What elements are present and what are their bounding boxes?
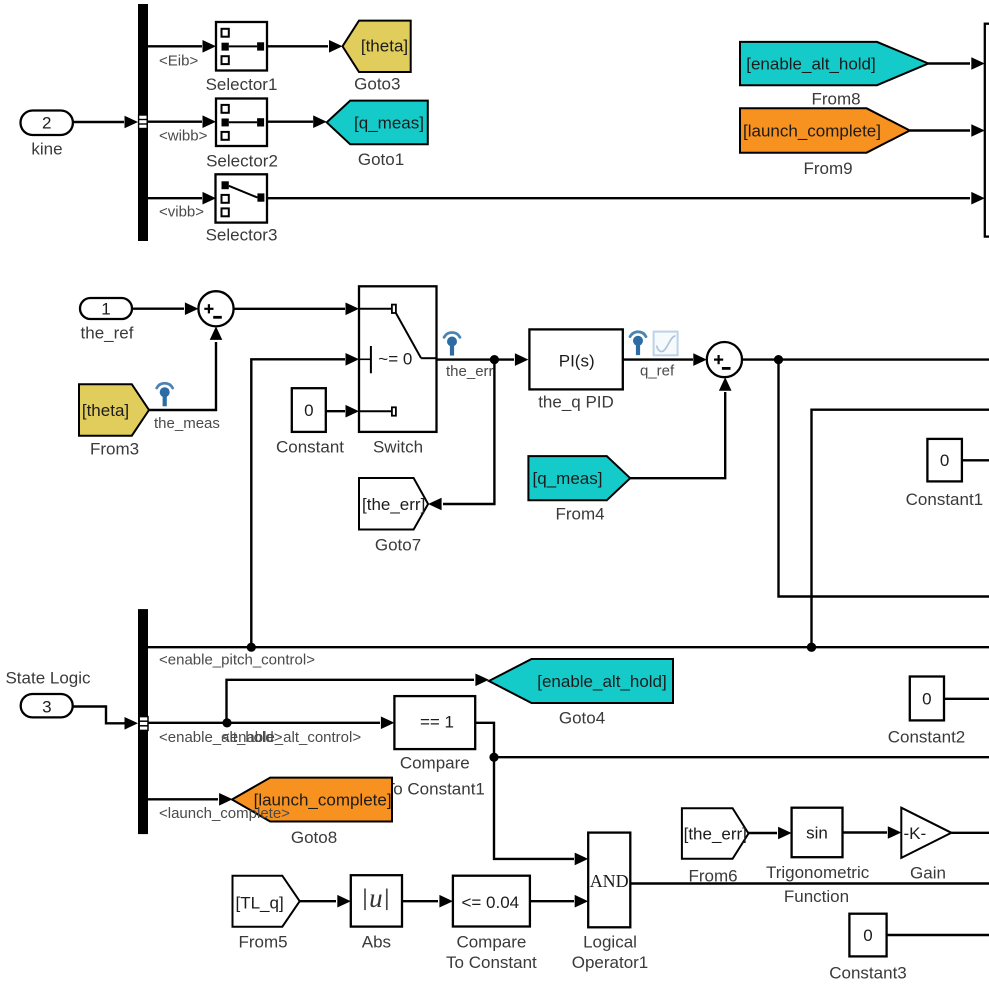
wire From3 to sum1 (149, 326, 222, 410)
svg-text:Gain: Gain (910, 863, 946, 882)
constant Constant (276, 388, 344, 456)
goto tag Goto7 [the_err] (359, 478, 428, 555)
svg-text:To Constant1: To Constant1 (385, 779, 485, 798)
wire PID to sum2 (623, 353, 707, 366)
svg-text:Goto1: Goto1 (358, 150, 404, 169)
wire Abs to compare (402, 895, 453, 908)
svg-text:<Eib>: <Eib> (159, 53, 198, 70)
svg-text:State Logic: State Logic (5, 669, 91, 688)
PID block the_q PID (529, 329, 622, 411)
svg-text:Constant2: Constant2 (888, 728, 966, 747)
svg-text:Abs: Abs (362, 933, 391, 952)
svg-text:To Constant: To Constant (446, 953, 537, 972)
trig block sin (766, 808, 870, 906)
wire From9 to right block (910, 124, 985, 137)
svg-text:<vibb>: <vibb> (159, 204, 204, 221)
svg-text:Compare: Compare (400, 754, 470, 773)
bus selector bar 1 (138, 4, 148, 241)
wire bus to Selector2 (148, 115, 216, 128)
sum block Sum2 (707, 342, 742, 377)
wire switch output to PID with junction (437, 353, 529, 366)
inport 1 the_ref (80, 298, 134, 343)
switch Switch (359, 286, 437, 456)
svg-text:Constant: Constant (276, 438, 344, 457)
svg-text:Constant1: Constant1 (906, 490, 984, 509)
svg-text:Goto8: Goto8 (291, 828, 337, 847)
signal logging badge q_ref (630, 332, 675, 380)
signal logging badge the_meas (154, 383, 220, 432)
svg-text:2: 2 (42, 114, 51, 133)
inport 3 (21, 694, 73, 717)
svg-text:[TL_q]: [TL_q] (236, 894, 284, 913)
wire feedback loop outer (779, 360, 989, 597)
logical operator AND (572, 833, 649, 972)
wire Constant2 out (944, 698, 989, 700)
wire branch down to Goto7 (428, 360, 494, 511)
svg-text:sin: sin (806, 824, 828, 843)
svg-text:[enable_alt_hold]: [enable_alt_hold] (746, 55, 876, 74)
wire sin to gain (843, 826, 902, 839)
svg-text:From6: From6 (688, 867, 737, 886)
svg-text:AND: AND (590, 871, 629, 891)
svg-text:Goto3: Goto3 (354, 74, 400, 93)
from tag From6 [the_err] (682, 808, 749, 885)
goto tag Goto3 [theta] (343, 21, 411, 94)
svg-text:the_err: the_err (446, 363, 494, 380)
from tag From8 [enable_alt_hold] (740, 42, 928, 108)
selector Selector2 (206, 99, 278, 171)
wire inport3 to bus bar 2 (73, 707, 138, 730)
wire bus to Selector1 (148, 40, 216, 53)
svg-text:0: 0 (863, 926, 872, 945)
wire Constant to switch (326, 405, 359, 418)
constant Constant2 (888, 677, 966, 747)
svg-text:[the_err]: [the_err] (684, 825, 747, 844)
signal logging badge the_err (444, 333, 493, 380)
svg-text:Constant3: Constant3 (829, 964, 907, 983)
from tag From5 [TL_q] (233, 876, 300, 952)
wire gain output (951, 832, 989, 834)
svg-text:0: 0 (922, 690, 931, 709)
wire enable_pitch_control (148, 643, 989, 652)
wire branch up to Goto4 (227, 674, 489, 723)
control wire from pitch bus up to switch (251, 353, 359, 647)
goto tag Goto1 [q_meas] (327, 101, 428, 170)
gain block Gain (901, 808, 951, 883)
wire From4 to sum2 (630, 377, 731, 478)
svg-text:~= 0: ~= 0 (378, 349, 412, 368)
svg-text:Logical: Logical (583, 933, 637, 952)
wire AND output (630, 882, 989, 884)
goto tag Goto4 [enable_alt_hold] (489, 659, 673, 728)
compare block Compare To Constant (446, 876, 537, 972)
inport 2 kine (21, 111, 73, 159)
scope viewer badge (654, 332, 678, 356)
wire compare to AND (530, 895, 588, 908)
wire Selector3 to right block (267, 192, 985, 205)
svg-text:u: u (369, 883, 383, 913)
sum block Sum1 (198, 291, 233, 326)
svg-text:kine: kine (31, 140, 62, 159)
constant Constant1 (906, 439, 984, 509)
wire From8 to right block (928, 57, 985, 70)
svg-text:[q_meas]: [q_meas] (533, 469, 603, 488)
selector Selector1 (206, 22, 278, 94)
svg-text:3: 3 (42, 697, 51, 716)
wire sum1 to switch (234, 303, 359, 316)
goto tag Goto8 [launch_complete] (232, 778, 392, 847)
from tag From4 [q_meas] (528, 456, 630, 523)
wire Constant1 out (962, 459, 989, 461)
bus selector bar 2 (138, 609, 148, 834)
svg-text:From9: From9 (803, 159, 852, 178)
wire Constant3 out (887, 934, 989, 936)
from tag From9 [launch_complete] (740, 108, 910, 178)
wire sum2 output right with junction (742, 355, 989, 364)
svg-text:0: 0 (304, 401, 313, 420)
svg-text:From8: From8 (811, 89, 860, 108)
wire bus to Goto8 (148, 793, 233, 806)
svg-text:0: 0 (940, 451, 949, 470)
svg-text:[theta]: [theta] (82, 401, 129, 420)
svg-text:[launch_complete]: [launch_complete] (743, 122, 881, 141)
svg-text:Function: Function (784, 887, 849, 906)
svg-text:From4: From4 (555, 505, 604, 524)
abs block Abs (351, 875, 402, 951)
svg-text:Selector2: Selector2 (206, 151, 278, 170)
wire Selector1 to Goto3 (267, 40, 343, 53)
from tag From3 [theta] (79, 384, 149, 458)
svg-text:Compare: Compare (456, 933, 526, 952)
svg-text:Switch: Switch (373, 438, 423, 457)
wire the_ref to sum1 (132, 302, 198, 315)
svg-text:1: 1 (101, 300, 110, 319)
svg-text:q_ref: q_ref (640, 363, 675, 380)
compare block Compare To Constant1 (385, 696, 485, 798)
svg-text:[enable_alt_hold]: [enable_alt_hold] (537, 672, 667, 691)
constant Constant3 (829, 914, 907, 983)
svg-text:From3: From3 (90, 440, 139, 459)
svg-text:Goto7: Goto7 (375, 536, 421, 555)
svg-text:the_ref: the_ref (81, 324, 134, 343)
svg-text:<= 0.04: <= 0.04 (461, 893, 519, 912)
svg-text:<enable_alt_control>: <enable_alt_control> (221, 729, 361, 746)
svg-text:<enable_pitch_control>: <enable_pitch_control> (159, 652, 315, 669)
svg-text:PI(s): PI(s) (559, 351, 595, 370)
right edge block top (985, 24, 989, 237)
svg-text:-K-: -K- (904, 824, 927, 843)
wire From6 to sin (749, 827, 792, 840)
svg-text:Selector1: Selector1 (206, 75, 278, 94)
svg-text:From5: From5 (238, 933, 287, 952)
svg-text:[the_err]: [the_err] (362, 495, 425, 514)
wire kine to bus selector (73, 116, 138, 129)
wire bus to compare1 (148, 717, 394, 730)
svg-text:the_meas: the_meas (154, 415, 220, 432)
svg-text:== 1: == 1 (420, 712, 454, 731)
selector Selector3 (206, 174, 278, 244)
svg-text:Goto4: Goto4 (559, 709, 605, 728)
svg-text:Trigonometric: Trigonometric (766, 863, 870, 882)
wire bus to Selector3 (148, 192, 216, 205)
wire From5 to Abs (300, 895, 351, 908)
wire compare1 output (475, 723, 989, 865)
svg-text:<launch_complete>: <launch_complete> (159, 805, 290, 822)
svg-text:<wibb>: <wibb> (159, 128, 208, 145)
svg-text:Operator1: Operator1 (572, 953, 649, 972)
wire loop inner with corner (807, 410, 989, 652)
svg-text:the_q PID: the_q PID (538, 393, 614, 412)
svg-text:[theta]: [theta] (361, 37, 408, 56)
svg-text:[q_meas]: [q_meas] (354, 113, 424, 132)
wire Selector2 to Goto1 (267, 115, 327, 128)
svg-text:Selector3: Selector3 (206, 226, 278, 245)
